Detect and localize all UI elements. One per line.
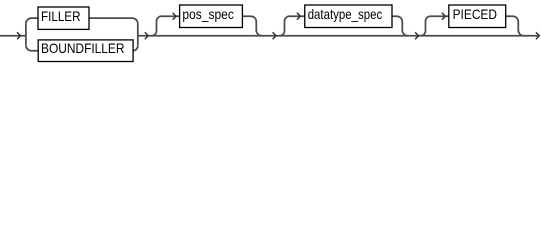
arrowhead after pos_spec merge: [273, 32, 276, 39]
wire pos_spec loop up: [152, 16, 180, 36]
arrowhead after choice merge: [145, 32, 148, 39]
svg-text:datatype_spec: datatype_spec: [308, 6, 383, 22]
svg-text:BOUNDFILLER: BOUNDFILLER: [41, 40, 125, 56]
wire merge vertical (choice right): [137, 24, 139, 46]
wire main line: [138, 35, 539, 37]
wire entry line: [0, 35, 26, 37]
arrowhead exit: [536, 32, 539, 39]
wire split vertical (choice left): [25, 24, 27, 46]
wire datatype_spec loop up: [280, 16, 305, 36]
wire arc to FILLER row: [26, 18, 38, 24]
wire arc to BOUNDFILLER row: [26, 45, 38, 51]
arrowhead into PIECED: [442, 13, 445, 20]
wire pos_spec loop down: [242, 16, 261, 36]
wire BOUNDFILLER exit arc: [133, 45, 138, 50]
wire datatype_spec loop down: [392, 16, 408, 36]
arrowhead into pos_spec: [173, 13, 176, 20]
svg-text:PIECED: PIECED: [453, 6, 497, 22]
railroad syntax diagram: (FILLER|BOUNDFILLER) [pos_spec] [datatype_spec] [PIECED]: [0, 0, 541, 64]
box nonterminal datatype_spec: [305, 5, 392, 28]
arrowhead after datatype_spec merge: [415, 32, 418, 39]
box keyword BOUNDFILLER: [38, 40, 133, 62]
wire PIECED loop down: [506, 16, 524, 36]
wire PIECED loop up: [421, 16, 449, 36]
wire FILLER exit to merge: [89, 18, 138, 24]
box keyword PIECED: [449, 5, 506, 28]
box nonterminal pos_spec: [180, 5, 243, 28]
svg-text:pos_spec: pos_spec: [182, 6, 234, 22]
box keyword FILLER: [38, 7, 89, 29]
arrowhead into datatype_spec: [297, 13, 300, 20]
arrowhead entry: [17, 32, 20, 39]
svg-text:FILLER: FILLER: [41, 8, 81, 24]
